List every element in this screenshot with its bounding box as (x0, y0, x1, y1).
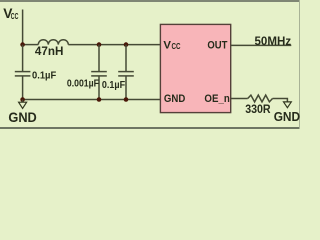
svg-text:0.001µF: 0.001µF (67, 79, 99, 90)
wire top rail left segment (23, 44, 39, 46)
inductor L1 47nH (38, 40, 68, 45)
svg-text:GND: GND (164, 93, 185, 105)
svg-text:330R: 330R (245, 102, 271, 116)
wire OE_n to resistor (231, 98, 248, 100)
svg-text:50MHz: 50MHz (255, 34, 292, 48)
svg-text:GND: GND (274, 109, 300, 124)
svg-text:47nH: 47nH (35, 46, 64, 58)
wire resistor to ground (273, 99, 288, 102)
wire OUT net (231, 44, 291, 46)
svg-text:GND: GND (8, 110, 37, 125)
svg-text:CC: CC (172, 42, 181, 51)
capacitor C2 0.001uF (91, 45, 107, 100)
wire bottom ground rail (23, 99, 161, 101)
junction node top C2 (97, 42, 102, 47)
ground symbol right (284, 102, 292, 108)
resistor R1 330R (248, 95, 273, 102)
capacitor C3 0.1uF (118, 45, 134, 100)
op IC U1 (160, 24, 230, 112)
wire top rail right segment (68, 44, 160, 46)
svg-text:V: V (163, 39, 171, 51)
junction node bottom left (20, 97, 25, 102)
svg-text:CC: CC (11, 12, 19, 21)
svg-text:OUT: OUT (207, 39, 227, 51)
svg-text:0.1µF: 0.1µF (102, 80, 125, 91)
junction node bottom C3 (124, 97, 129, 102)
junction node at VCC drop (20, 42, 25, 47)
svg-text:0.1µF: 0.1µF (32, 71, 56, 82)
pin label VCC (U1) (163, 39, 180, 51)
ground symbol left (19, 100, 27, 109)
capacitor C1 0.1uF (15, 45, 31, 100)
net label VCC (3, 6, 18, 21)
junction node top C3 (124, 42, 129, 47)
junction node bottom C2 (97, 97, 102, 102)
wire VCC vertical drop (22, 10, 24, 45)
svg-text:OE_n: OE_n (204, 93, 230, 105)
